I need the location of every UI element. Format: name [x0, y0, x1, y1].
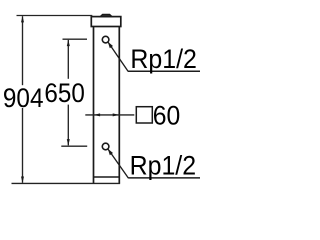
base band line: [94, 176, 120, 178]
dimension 904 arrow down: [21, 177, 24, 184]
dimension 650 extension line bottom: [61, 145, 87, 147]
arrow pointing left at column left edge: [94, 113, 101, 116]
svg-text:650: 650: [44, 78, 84, 108]
bottom Rp1/2 leader arrowhead: [108, 149, 113, 155]
dimension line for square 60 width: [85, 114, 134, 116]
svg-text:Rp1/2: Rp1/2: [130, 150, 197, 180]
dimension 904 arrow up: [21, 16, 24, 23]
arrow pointing right at column right edge: [113, 113, 120, 116]
svg-text:904: 904: [3, 83, 44, 113]
svg-text:Rp1/2: Rp1/2: [130, 44, 197, 74]
bottom hole circle: [102, 143, 109, 150]
top Rp1/2 underline: [128, 70, 200, 72]
column body (square pipe): [94, 27, 120, 184]
dimension 904 extension line top: [17, 15, 93, 17]
bottom baseline (extension of 904 dimension, under column): [12, 182, 121, 184]
dimension 650 arrow down: [67, 139, 70, 146]
top cap: [91, 17, 121, 27]
square symbol of square-60 label: [136, 107, 152, 123]
dimension 904 line: [22, 16, 24, 183]
cap dome bump: [100, 14, 112, 16]
dimension 650 line: [67, 40, 69, 145]
bottom Rp1/2 underline: [128, 177, 200, 179]
dimension 650 extension line top: [63, 38, 88, 40]
top hole circle: [102, 36, 109, 43]
bottom Rp1/2 leader line: [108, 149, 128, 178]
top Rp1/2 leader line: [108, 42, 128, 71]
top Rp1/2 leader arrowhead: [108, 42, 113, 48]
svg-text:60: 60: [153, 100, 181, 130]
dimension 650 arrow up: [67, 40, 70, 47]
